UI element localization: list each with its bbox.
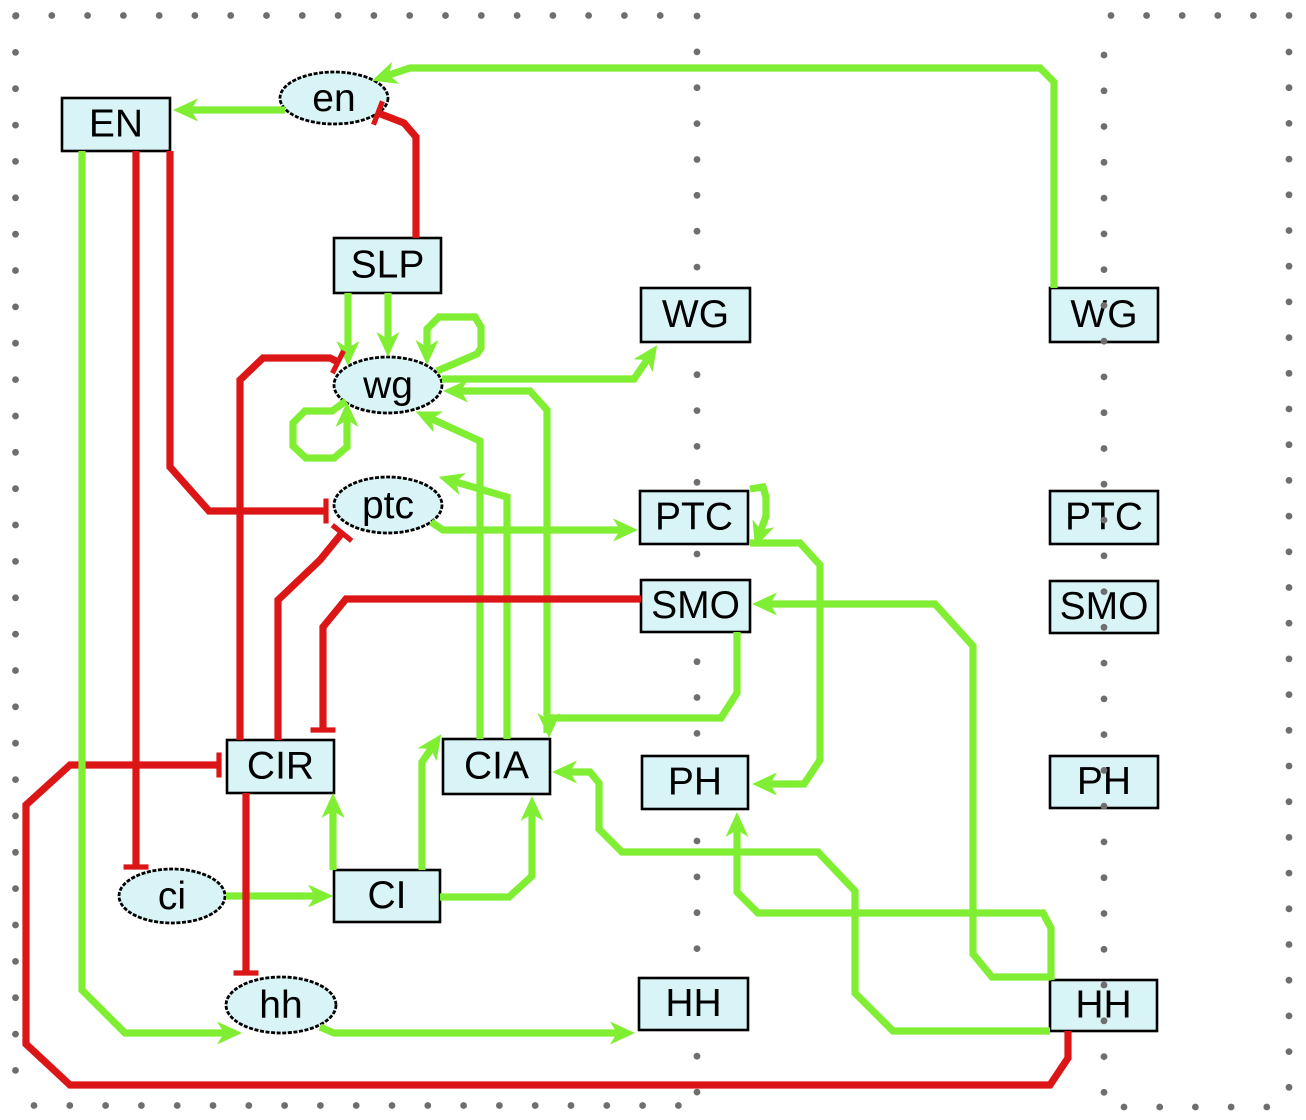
- edge PTC->PH activation: [750, 543, 820, 784]
- svg-text:PTC: PTC: [655, 496, 733, 539]
- edge hh->HH activation: [320, 1027, 617, 1033]
- node en (ellipse): [280, 72, 388, 124]
- node PTC' (box): [1050, 491, 1158, 544]
- node SMO (box): [641, 580, 750, 632]
- edge EN->hh activation: [82, 151, 224, 1033]
- cell boundary right cell: top dotted row: [1108, 12, 1293, 19]
- edge en->EN activation: [191, 106, 285, 113]
- node PH' (box): [1050, 756, 1158, 808]
- edge HH'-|CIR inhibition (from neighbour cell): [26, 765, 1068, 1085]
- node SMO' (box): [1050, 581, 1158, 633]
- svg-text:wg: wg: [362, 364, 413, 407]
- edge CI->CIR activation: [329, 811, 336, 870]
- svg-text:SLP: SLP: [351, 244, 425, 287]
- edge SMO-|CIR inhibition: [323, 599, 641, 730]
- cell boundary left cell: bottom dotted row: [31, 1102, 682, 1109]
- node hh (ellipse): [226, 977, 336, 1033]
- edge HH'->PH activation: [737, 830, 1051, 980]
- edge HH'->CIA activation: [570, 772, 1050, 1031]
- edge CIA->ptc activation: [456, 482, 507, 739]
- cell membrane middle dotted column: [694, 13, 701, 1096]
- edge CIR-|hh inhibition: [242, 793, 249, 973]
- edge ci->CI activation: [226, 892, 315, 899]
- edge EN-|ci inhibition: [132, 151, 139, 867]
- edge SMO->CIA activation: [549, 632, 737, 720]
- svg-text:EN: EN: [89, 103, 143, 146]
- svg-text:ci: ci: [158, 875, 186, 918]
- cell boundary left cell: left dotted column: [12, 13, 19, 1074]
- svg-text:ptc: ptc: [362, 484, 414, 527]
- svg-text:CIA: CIA: [464, 745, 529, 788]
- edge CI->CIA activation 2: [440, 814, 532, 897]
- node PH (box): [642, 756, 748, 809]
- node PTC (box): [640, 491, 748, 544]
- edge CIA->wg activation 2: [461, 391, 547, 733]
- svg-text:CIR: CIR: [247, 745, 314, 788]
- node CI (box): [334, 870, 440, 922]
- edge ptc->PTC activation: [431, 522, 620, 530]
- edge CIA->wg activation 1: [432, 419, 480, 739]
- svg-text:PH: PH: [668, 761, 722, 804]
- node CIA (box): [443, 739, 550, 794]
- edge wg->wg self-loop upper: [427, 317, 481, 371]
- cell membrane right dotted column: [1101, 52, 1108, 1096]
- svg-text:SMO: SMO: [651, 584, 740, 627]
- node SLP (box): [334, 238, 441, 293]
- svg-text:hh: hh: [259, 984, 302, 1027]
- node CIR (box): [227, 740, 334, 793]
- cell boundary left cell: top dotted row: [13, 12, 664, 19]
- node EN (box): [62, 98, 170, 151]
- edge wg->wg self-loop lower: [293, 401, 347, 458]
- node WG' (box): [1050, 288, 1158, 342]
- edge CIR-|wg inhibition: [240, 358, 338, 740]
- node WG (box): [641, 288, 750, 342]
- edge HH'->SMO activation: [770, 604, 1051, 977]
- node ci (ellipse): [119, 869, 225, 923]
- edge EN-|ptc inhibition: [170, 151, 326, 511]
- edge PTC->PTC self-loop: [750, 487, 766, 530]
- svg-text:PH: PH: [1077, 760, 1131, 803]
- edge wg->WG activation: [442, 360, 647, 379]
- edge SLP->wg activation 2: [384, 293, 391, 339]
- cell boundary right cell: right dotted column: [1286, 49, 1293, 1091]
- edge WG'->en activation (from neighbour cell): [389, 68, 1054, 288]
- node HH (box): [639, 978, 748, 1030]
- node ptc (ellipse): [334, 477, 442, 533]
- edge CI->CIA activation 1: [422, 749, 431, 870]
- svg-text:en: en: [312, 77, 355, 120]
- svg-text:WG: WG: [662, 293, 729, 336]
- edge SLP->wg activation 1: [344, 293, 351, 348]
- svg-text:HH: HH: [665, 982, 721, 1025]
- node HH' (box): [1050, 980, 1157, 1031]
- cell boundary right cell: bottom dotted row: [1121, 1104, 1271, 1111]
- svg-text:CI: CI: [368, 874, 407, 917]
- node wg (ellipse): [334, 357, 442, 413]
- svg-text:WG: WG: [1070, 293, 1137, 336]
- edge CIR-|ptc inhibition: [278, 533, 342, 740]
- edge SLP-|en inhibition: [378, 113, 416, 238]
